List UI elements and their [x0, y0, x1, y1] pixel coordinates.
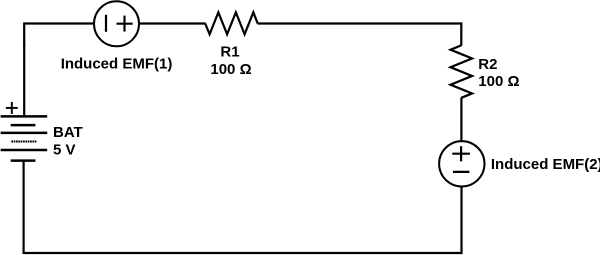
- wire right-middle: R2 to EMF(2) top terminal: [460, 98, 462, 142]
- wire top-middle: EMF(1) right terminal to R1: [139, 22, 206, 24]
- voltage source Induced EMF(1): [94, 1, 139, 46]
- wire top-right: R1 to top-right corner down to R2: [258, 24, 462, 46]
- wire left-bottom: battery negative plate to bottom-left corner: [23, 161, 25, 254]
- resistor R2: [451, 45, 473, 98]
- svg-text:100 Ω: 100 Ω: [478, 73, 519, 90]
- svg-text:R1: R1: [220, 44, 239, 61]
- wire left: top corner down to battery positive plate: [23, 44, 25, 116]
- svg-text:100 Ω: 100 Ω: [210, 61, 251, 78]
- svg-text:Induced EMF(2): Induced EMF(2): [491, 156, 600, 173]
- resistor R1: [205, 12, 258, 34]
- wire top-left: corner to EMF(1) left terminal: [24, 24, 94, 47]
- battery BAT: [1, 116, 48, 160]
- svg-text:BAT: BAT: [53, 124, 83, 141]
- voltage source Induced EMF(2): [439, 141, 484, 186]
- svg-text:Induced EMF(1): Induced EMF(1): [61, 56, 173, 73]
- svg-text:5 V: 5 V: [53, 141, 76, 158]
- svg-text:R2: R2: [478, 56, 497, 73]
- battery BAT plus polarity mark: [6, 102, 18, 114]
- wire right-bottom: EMF(2) bottom terminal to bottom-right corner: [24, 186, 461, 253]
